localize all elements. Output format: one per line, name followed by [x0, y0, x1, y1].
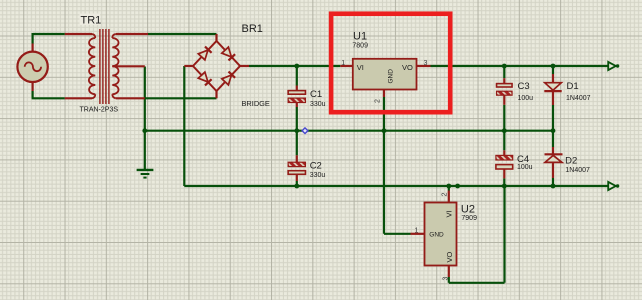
svg-text:BRIDGE: BRIDGE [242, 99, 270, 108]
svg-text:C3: C3 [518, 81, 530, 92]
wire: middle 0V rail [145, 130, 553, 132]
transformer center tap pin [112, 65, 145, 67]
bridge diode left-bottom (anode left, cathode bottom) [198, 72, 208, 82]
capacitor C2 330u [296, 155, 298, 162]
diode D2 1N4007 (pointing up) [552, 147, 554, 154]
wire: U1 VO to +9V arrow (top rail) [431, 65, 609, 67]
svg-text:330u: 330u [310, 172, 326, 179]
svg-text:1N4007: 1N4007 [566, 95, 591, 102]
svg-text:1N4007: 1N4007 [565, 167, 590, 174]
svg-text:U1: U1 [353, 31, 367, 43]
wire: bridge negative corner down and bottom rail [183, 66, 185, 186]
U2 pin 2 VI stub [448, 191, 450, 203]
svg-text:1: 1 [415, 228, 419, 235]
capacitor C1 330u [296, 86, 298, 91]
wire: C4 column leads [503, 131, 505, 151]
wire: D1 column leads [552, 66, 554, 74]
output terminal arrow -9V [608, 182, 616, 190]
wire: secondary top to bridge top corner [148, 33, 217, 35]
bridge diode left-top (anode left, cathode top) [198, 50, 208, 60]
regulator U2 7909 box [425, 203, 457, 266]
U1 pin 2 GND stub [383, 90, 385, 98]
wire: center tap vertical down to middle rail [144, 67, 146, 131]
wire: bridge positive output to U1 VI [249, 65, 340, 67]
svg-text:7809: 7809 [352, 42, 368, 49]
highlight box around U1 [331, 14, 450, 112]
wire: C3 column leads [503, 66, 505, 78]
svg-text:D1: D1 [567, 81, 579, 92]
ground [144, 131, 146, 170]
AC source V1 [31, 44, 33, 52]
svg-text:3: 3 [443, 277, 450, 281]
op-amp U1 7809 regulator box [353, 59, 417, 90]
svg-text:VO: VO [402, 63, 413, 72]
svg-text:2: 2 [442, 193, 449, 197]
wire: secondary bottom to bridge bottom corner [145, 97, 217, 99]
svg-text:330u: 330u [310, 101, 326, 108]
capacitor C3 100u [503, 78, 505, 83]
capacitor C4 100u [503, 150, 505, 155]
node marker (blue diamond) [302, 128, 308, 134]
transformer core [99, 29, 101, 104]
svg-text:100u: 100u [518, 95, 534, 102]
wire: D2 column leads [552, 131, 554, 147]
bridge diode top-right (anode top, cathode right) [222, 47, 232, 57]
bridge rectifier BR1 [215, 34, 217, 41]
label TR1 [80, 14, 101, 26]
wire: C2 column leads [296, 131, 298, 156]
U1 pin 3 VO stub [417, 65, 431, 67]
U2 pin 3 VO stub [448, 266, 450, 278]
transformer secondary [112, 34, 116, 38]
diode D1 1N4007 (pointing down) [552, 74, 554, 83]
svg-text:C2: C2 [310, 161, 322, 172]
svg-text:C1: C1 [310, 89, 322, 100]
svg-text:3: 3 [424, 60, 428, 67]
output terminal arrow +9V [608, 62, 616, 70]
svg-text:BR1: BR1 [242, 23, 263, 35]
svg-text:2: 2 [375, 99, 382, 103]
svg-text:VI: VI [357, 63, 364, 72]
svg-text:GND: GND [429, 232, 444, 239]
svg-text:TRAN-2P3S: TRAN-2P3S [80, 107, 119, 114]
svg-text:U2: U2 [461, 204, 475, 216]
svg-text:100u: 100u [517, 164, 533, 171]
transformer TR1 [65, 33, 92, 35]
wire: U2 VO loop to C4 column [448, 277, 450, 283]
bridge diode bottom-right (anode bottom, cathode right) [222, 75, 232, 85]
svg-text:VI: VI [445, 210, 454, 217]
svg-text:GND: GND [388, 69, 395, 84]
wire: AC source bottom to transformer primary bottom (y=98.3) [31, 91, 33, 98]
svg-text:7909: 7909 [461, 215, 477, 222]
wire: U1 GND down through rails to U2 GND [383, 97, 385, 234]
wire: U2 VI pin stub from bottom rail [448, 186, 450, 191]
svg-text:TR1: TR1 [81, 15, 102, 27]
U1 pin 1 VI stub [340, 65, 353, 67]
svg-text:D2: D2 [565, 156, 577, 167]
U2 pin 1 GND stub [411, 233, 425, 235]
svg-text:1: 1 [341, 60, 345, 67]
svg-text:VO: VO [445, 251, 454, 262]
wire: AC source top to transformer primary top (y=34) [33, 33, 65, 35]
wire: C1 column leads [296, 66, 298, 86]
junction dots [294, 64, 299, 69]
